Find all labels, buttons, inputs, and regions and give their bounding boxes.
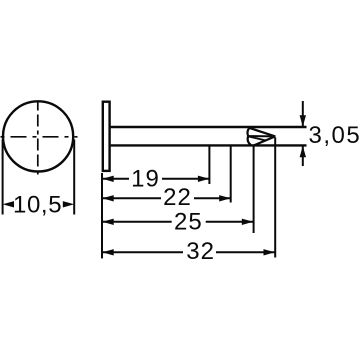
left extension line for length dims [101,173,103,258]
dim 25 extension line [253,147,255,234]
dim 19 extension line [208,147,210,185]
dim 22 line [102,197,230,199]
dim 19 left arrow [102,176,113,182]
dim 25 line [102,221,253,223]
dim 32 line [102,251,275,253]
dim 22 extension line [230,147,232,203]
circle horizontal centerline [0,136,78,138]
svg-text:10,5: 10,5 [13,191,62,218]
dim 32 left arrow [102,249,113,255]
dim 10,5 right extension line [73,140,75,215]
shank bottom edge + 3,05 extension [111,144,307,146]
dim 25 right arrow [242,219,253,225]
nail point lower facet line [254,136,275,145]
nail point upper left arc [247,128,249,136]
nail point lower petal edge line [248,136,265,140]
dim 32 text mask [183,243,216,262]
dim 3,05 top arrow leader [302,101,304,126]
shank top edge + 3,05 extension [111,126,307,128]
dim 22 text mask [161,189,194,208]
svg-text:19: 19 [131,165,160,192]
dim 3,05 bottom arrow leader [302,146,304,166]
dim 19 text mask [129,169,162,188]
svg-text:25: 25 [174,208,203,235]
circle vertical centerline [37,102,39,176]
dim 32 right arrow [264,249,275,255]
dim 32 extension line from nail tip [274,138,276,258]
dim 22 left arrow [102,195,113,201]
nail point upper facet line [249,128,275,136]
nail head (side view) [103,102,110,171]
dim 25 text mask [172,213,206,232]
svg-text:3,05: 3,05 [309,122,360,149]
nail point middle ridge line [248,135,275,137]
svg-text:22: 22 [163,184,192,211]
dim 3,05 bottom arrowhead [300,146,306,157]
svg-text:32: 32 [186,238,215,265]
nail point lower left arc [248,136,251,145]
dim 10,5 right arrow [63,201,74,207]
dim 10,5 left extension line [2,140,4,215]
dim 3,05 top arrowhead [300,115,306,126]
dim 19 line [102,178,209,180]
head top view circle [3,101,73,171]
dim 19 right arrow [198,176,209,182]
dim 25 left arrow [102,219,113,225]
dim 22 right arrow [219,195,230,201]
dim 10,5 left arrow [3,201,14,207]
